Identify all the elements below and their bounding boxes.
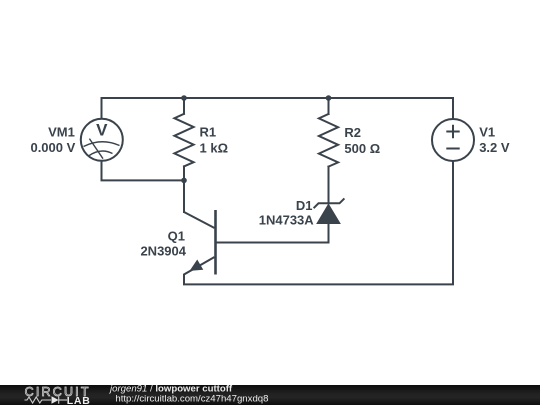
svg-text:3.2 V: 3.2 V xyxy=(479,140,510,155)
voltage source V1 xyxy=(432,119,474,161)
svg-text:1 kΩ: 1 kΩ xyxy=(200,140,229,155)
voltmeter VM1 xyxy=(81,119,123,161)
svg-text:VM1: VM1 xyxy=(48,124,75,139)
logo resistor+diode squiggle xyxy=(25,396,68,403)
svg-text:http://circuitlab.com/cz47h47g: http://circuitlab.com/cz47h47gnxdq8 xyxy=(115,393,268,404)
wire R2 bottom to D1 cathode xyxy=(328,167,330,204)
svg-text:0.000 V: 0.000 V xyxy=(30,140,75,155)
node junction dot R1 top xyxy=(181,95,187,101)
svg-text:500 Ω: 500 Ω xyxy=(344,141,380,156)
svg-text:V1: V1 xyxy=(479,125,495,140)
wire V1 top lead xyxy=(452,98,454,119)
footer bar xyxy=(0,385,540,405)
node junction dot VM1/R1 bottom xyxy=(181,178,187,184)
wire R1 bottom to collector xyxy=(183,166,185,212)
svg-text:1N4733A: 1N4733A xyxy=(259,213,315,228)
svg-text:D1: D1 xyxy=(296,198,313,213)
resistor R1 xyxy=(174,114,193,167)
wire D1 anode down xyxy=(328,224,330,243)
svg-text:LAB: LAB xyxy=(67,395,91,405)
wire R1 top lead xyxy=(183,98,185,114)
zener diode D1 xyxy=(314,198,345,223)
transistor Q1 xyxy=(184,210,216,284)
svg-text:V: V xyxy=(96,121,108,140)
svg-text:R1: R1 xyxy=(200,124,217,139)
svg-text:2N3904: 2N3904 xyxy=(140,244,186,259)
node junction dot R2 top xyxy=(326,95,332,101)
wire top rail xyxy=(102,98,454,119)
svg-text:Q1: Q1 xyxy=(168,229,185,244)
wire VM1 bottom to node xyxy=(102,161,185,181)
resistor R2 xyxy=(319,114,338,167)
wire base lead Q1 to D1 xyxy=(216,242,329,244)
wire R2 top lead xyxy=(328,98,330,114)
wire bottom rail xyxy=(184,161,453,284)
svg-text:R2: R2 xyxy=(344,125,361,140)
